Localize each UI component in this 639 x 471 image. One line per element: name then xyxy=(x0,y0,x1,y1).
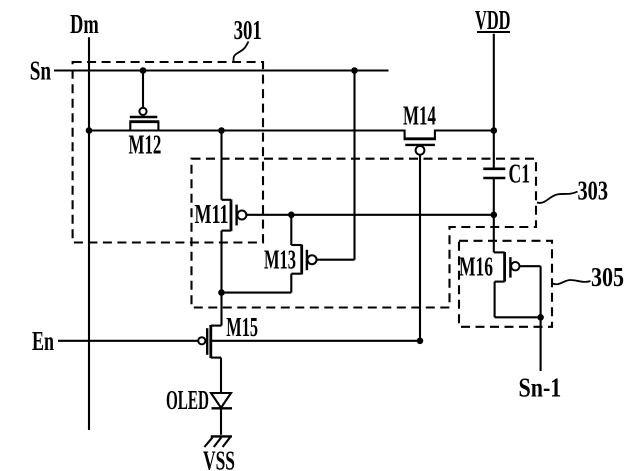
label Sn-1 xyxy=(519,373,562,403)
wire M14 to VDD xyxy=(435,129,494,131)
svg-text:M13: M13 xyxy=(264,245,296,275)
svg-text:En: En xyxy=(32,326,54,356)
svg-text:301: 301 xyxy=(234,15,262,45)
leader 305 xyxy=(553,280,591,284)
transistor M11 xyxy=(222,131,247,293)
label VDD xyxy=(475,5,511,35)
label M13 xyxy=(264,245,296,275)
svg-text:VDD: VDD xyxy=(475,5,511,35)
wire VDD lead xyxy=(493,34,495,169)
dashed box 305 xyxy=(459,241,552,327)
label En xyxy=(32,326,54,356)
leader 301 xyxy=(233,42,248,62)
transistor M14 xyxy=(404,130,436,341)
junction C1 bottom node xyxy=(491,212,498,219)
junction M11 gate / M13 xyxy=(288,212,295,219)
junction En / M14 gate xyxy=(417,338,424,345)
node VDD underline xyxy=(477,31,510,33)
wire Sn row xyxy=(54,69,389,71)
svg-text:M16: M16 xyxy=(459,252,493,282)
junction M11 top xyxy=(218,127,225,134)
svg-text:OLED: OLED xyxy=(166,385,209,415)
label Dm xyxy=(70,9,99,39)
dashed box 303 (L-shaped region around M11/M13/C1) xyxy=(192,159,537,308)
wire mid node row xyxy=(222,292,292,294)
junction mid node xyxy=(218,289,225,296)
transistor M15 xyxy=(198,293,221,393)
label M11 xyxy=(195,199,229,229)
leader 303 xyxy=(537,192,578,203)
svg-text:M11: M11 xyxy=(195,199,229,229)
wire En row right xyxy=(211,340,420,342)
svg-text:M15: M15 xyxy=(226,312,258,342)
label C1 xyxy=(509,159,531,189)
svg-text:VSS: VSS xyxy=(203,446,235,471)
svg-text:M12: M12 xyxy=(129,130,162,160)
label VSS xyxy=(203,446,235,471)
label M12 xyxy=(129,130,162,160)
label Sn xyxy=(30,56,51,86)
dashed box 301 xyxy=(73,62,263,243)
svg-text:303: 303 xyxy=(578,176,609,206)
wire M11 gate row to C1 node xyxy=(246,214,493,216)
diode OLED xyxy=(211,393,232,435)
label 303 xyxy=(578,176,609,206)
wire En row left xyxy=(58,340,198,342)
transistor M16 xyxy=(494,252,541,317)
junction on Sn at M13 gate xyxy=(351,67,358,74)
label M16 xyxy=(459,252,493,282)
wire M13 gate to Sn xyxy=(353,71,355,260)
svg-text:M14: M14 xyxy=(403,101,436,131)
label M14 xyxy=(403,101,436,131)
wire to Sn-1 xyxy=(540,317,542,371)
junction M14-VDD xyxy=(491,127,498,134)
svg-text:Dm: Dm xyxy=(70,9,99,39)
label M15 xyxy=(226,312,258,342)
junction M16 gate/source xyxy=(537,314,544,321)
capacitor C1 xyxy=(483,169,505,253)
svg-text:C1: C1 xyxy=(509,159,531,189)
svg-text:305: 305 xyxy=(591,262,624,292)
label 301 xyxy=(234,15,262,45)
label 305 xyxy=(591,262,624,292)
svg-text:Sn: Sn xyxy=(30,56,51,86)
wire Dm column xyxy=(88,37,90,430)
transistor M12 xyxy=(129,71,159,131)
ground VSS xyxy=(204,436,232,447)
transistor M13 xyxy=(291,215,354,293)
svg-text:Sn-1: Sn-1 xyxy=(519,373,562,403)
label OLED xyxy=(166,385,209,415)
wire M12/M14 row xyxy=(89,129,405,131)
junction Dm row xyxy=(86,127,93,134)
junction on Sn at M12 gate xyxy=(86,67,544,344)
